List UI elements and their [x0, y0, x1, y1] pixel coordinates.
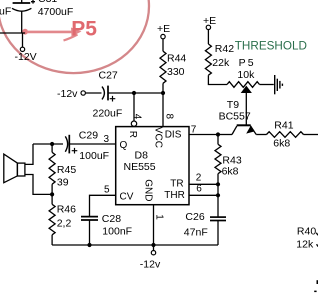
pin name R (rotated): [127, 131, 138, 138]
svg-text:C28: C28: [102, 213, 121, 225]
svg-text:47nF: 47nF: [184, 226, 208, 238]
annotation arrow to P5: [27, 28, 82, 41]
svg-text:R40: R40: [297, 226, 316, 238]
resistor R45: [49, 144, 55, 194]
pin number 3: [104, 134, 110, 145]
label BC557: [219, 110, 251, 122]
wire C28 to rail: [89, 220, 91, 245]
label THRESHOLD: [235, 40, 307, 53]
junction R43/pin2: [216, 182, 220, 186]
wire T9 emitter to R41: [256, 134, 266, 136]
label C31 (cut off at top): [38, 0, 57, 5]
svg-text:D8: D8: [135, 149, 149, 161]
svg-text:VCC: VCC: [152, 127, 163, 148]
wire terminal to C27: [85, 92, 101, 94]
wire speaker top to C29: [33, 143, 63, 145]
label NE555: [124, 161, 156, 173]
wire C27 to VCC node: [108, 92, 163, 94]
junction R45/R46/speaker: [50, 192, 54, 196]
wire left rail to node: [0, 32, 25, 34]
potentiometer wiper arrow: [241, 86, 252, 93]
svg-text:CV: CV: [120, 192, 134, 203]
svg-text:4: 4: [131, 114, 142, 120]
label 330: [167, 66, 185, 78]
svg-text:THR: THR: [164, 190, 185, 201]
svg-text:R45: R45: [57, 164, 76, 176]
wire speaker bottom lead: [25, 175, 52, 195]
svg-text:BC557: BC557: [219, 110, 251, 122]
junction pin6/C26: [216, 193, 220, 197]
wire R41 to right edge: [304, 134, 319, 136]
svg-text:330: 330: [167, 66, 185, 78]
potentiometer P5 track: [227, 82, 260, 88]
svg-text:1: 1: [153, 214, 164, 220]
junction VCC node: [161, 91, 165, 95]
junction pin1 rail: [151, 243, 155, 247]
pin number 1 (rotated): [153, 214, 164, 220]
terminal +E (R44): [157, 23, 170, 39]
label R41: [274, 119, 293, 131]
label R44: [167, 53, 186, 65]
wire wiper to T9 base: [245, 93, 247, 125]
label C26: [185, 211, 204, 223]
pin number 2: [196, 173, 202, 184]
label 2,2: [57, 217, 72, 229]
svg-text:DIS: DIS: [165, 129, 182, 140]
svg-text:-12V: -12V: [15, 51, 37, 63]
svg-text:100uF: 100uF: [79, 150, 109, 162]
wire pin 2 (TR): [189, 183, 218, 185]
wire R42 to potentiometer: [208, 75, 227, 84]
svg-text:R44: R44: [167, 53, 186, 65]
pin name Q: [120, 140, 128, 151]
label R42: [215, 43, 234, 55]
pin name VCC (rotated): [152, 127, 163, 148]
pin name DIS: [165, 129, 182, 140]
label R43: [222, 155, 241, 167]
svg-text:R: R: [127, 131, 138, 138]
wire speaker top lead: [25, 144, 33, 164]
pin number 7: [191, 124, 197, 135]
wire down to pin 8: [162, 93, 164, 127]
label D8: [135, 149, 149, 161]
svg-text:C31: C31: [38, 0, 57, 5]
svg-text:R41: R41: [274, 119, 293, 131]
wire T9 collector to pin7 node: [218, 134, 232, 136]
label C27: [99, 70, 118, 82]
capacitor C28: [81, 217, 98, 220]
junction pin7/R43/T9: [216, 132, 220, 136]
label R40 (partial component at edge): [297, 226, 316, 238]
svg-text:39: 39: [57, 177, 69, 189]
wire pin6 node to C26: [217, 195, 219, 216]
svg-text:uF: uF: [0, 6, 11, 18]
label R46: [57, 204, 76, 216]
wire pin2 node to pin6 node: [217, 184, 219, 195]
junction pin4 branch: [132, 91, 136, 95]
svg-text:5: 5: [104, 184, 110, 195]
svg-text:100nF: 100nF: [102, 226, 132, 238]
svg-text:THRESHOLD: THRESHOLD: [235, 40, 307, 53]
wire pin 5 to C28: [90, 195, 116, 216]
svg-text:P5: P5: [239, 57, 256, 69]
svg-text:R42: R42: [215, 43, 234, 55]
label C28: [102, 213, 121, 225]
svg-text:22k: 22k: [212, 57, 230, 69]
wire R44 to VCC node: [162, 83, 164, 91]
svg-text:Q: Q: [120, 140, 128, 151]
svg-text:6: 6: [196, 184, 202, 195]
pin name CV: [120, 192, 134, 203]
terminal -12V: [15, 47, 37, 63]
speaker LS: [4, 154, 25, 183]
label 4700uF: [38, 6, 74, 18]
wire pin 1 to rail: [153, 205, 155, 245]
label P5 (annotation): [71, 17, 97, 40]
svg-text:6k8: 6k8: [222, 165, 239, 177]
resistor R43: [215, 135, 221, 185]
wire +E to R44: [162, 39, 164, 51]
label partial uF (cut off at left): [0, 6, 11, 18]
label 47nF: [184, 226, 208, 238]
pin number 6: [196, 184, 202, 195]
svg-text:6k8: 6k8: [273, 137, 290, 149]
svg-text:12k: 12k: [296, 238, 314, 250]
svg-text:NE555: NE555: [124, 161, 156, 173]
svg-text:C27: C27: [99, 70, 118, 82]
pin number 4 (rotated): [131, 114, 142, 120]
ground (earth symbol): [275, 75, 283, 94]
pin name GND (rotated): [143, 179, 154, 201]
annotation ellipse P5 highlight: [0, 0, 149, 73]
wire C29 to pin 3: [69, 143, 115, 145]
op-amp timer IC U D8 NE555 body: [116, 127, 189, 205]
svg-text:4700uF: 4700uF: [38, 6, 74, 18]
capacitor C31: [12, 0, 35, 33]
label 100uF: [79, 150, 109, 162]
transistor T9 BC557: [232, 125, 256, 134]
pin number 8 (rotated): [164, 114, 175, 120]
label 39: [57, 177, 69, 189]
svg-text:8: 8: [164, 114, 175, 120]
label 100nF: [102, 226, 132, 238]
wire pin 6 (THR): [189, 194, 218, 196]
capacitor C26: [210, 217, 226, 220]
label 6k8 (R43): [222, 165, 239, 177]
resistor R46: [49, 194, 55, 245]
svg-text:GND: GND: [143, 179, 154, 201]
label R45: [57, 164, 76, 176]
svg-text:C26: C26: [185, 211, 204, 223]
capacitor C29: [65, 135, 77, 154]
wire pin 7 (DIS): [189, 134, 218, 136]
wire pot to ground: [260, 84, 274, 86]
resistor R44: [160, 51, 166, 83]
svg-text:P5: P5: [71, 17, 97, 40]
label 6k8 (R41): [273, 137, 290, 149]
svg-text:-12v: -12v: [140, 259, 161, 271]
svg-text:T9: T9: [227, 99, 239, 111]
pin name THR: [164, 190, 185, 201]
partial marks bottom right edge: [314, 280, 318, 292]
terminal -12v (C27 input): [57, 88, 85, 100]
label T9: [227, 99, 239, 111]
capacitor C27: [102, 86, 115, 102]
svg-text:+E: +E: [157, 23, 170, 35]
label 10k: [237, 69, 255, 81]
node P5 annotation dot: [22, 29, 28, 35]
junction C28 rail: [87, 243, 91, 247]
label 220uF: [93, 108, 123, 120]
label 12k: [296, 238, 314, 250]
svg-text:10k: 10k: [237, 69, 255, 81]
svg-text:-12v: -12v: [57, 88, 78, 100]
svg-text:220uF: 220uF: [93, 108, 123, 120]
pin 4 inversion bubble (R): [131, 121, 136, 126]
svg-text:7: 7: [191, 124, 197, 135]
label P5 (pot): [239, 57, 256, 69]
terminal -12v (bottom): [140, 245, 161, 271]
wire bottom rail: [52, 244, 218, 246]
junction R45 top: [50, 142, 54, 146]
resistor R40 zigzag nubs at right edge: [316, 233, 318, 247]
svg-text:TR: TR: [170, 178, 183, 189]
label 22k: [212, 57, 230, 69]
wire down to pin 4 bubble: [133, 93, 135, 121]
label C29: [79, 130, 98, 142]
svg-text:2: 2: [196, 173, 202, 184]
wire C26 to rail: [217, 221, 219, 246]
pin name TR: [170, 178, 183, 189]
resistor R41: [267, 132, 304, 138]
svg-text:C29: C29: [79, 130, 98, 142]
svg-text:R46: R46: [57, 204, 76, 216]
svg-text:2,2: 2,2: [57, 217, 72, 229]
pin number 5: [104, 184, 110, 195]
wire node down to -12V terminal: [22, 33, 24, 47]
resistor R42: [205, 44, 211, 75]
wire +E to R42: [207, 30, 209, 44]
terminal +E (R42): [203, 15, 216, 30]
